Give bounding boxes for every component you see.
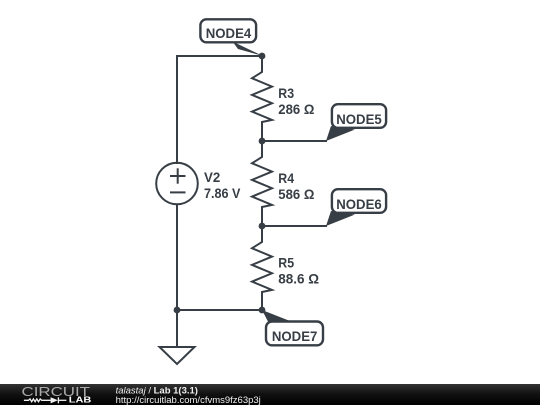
svg-text:R5: R5 <box>278 255 294 271</box>
svg-text:NODE6: NODE6 <box>336 197 382 212</box>
svg-text:http://circuitlab.com/cfvms9fz: http://circuitlab.com/cfvms9fz63p3j <box>116 395 261 405</box>
svg-text:586 Ω: 586 Ω <box>278 186 314 202</box>
svg-text:LAB: LAB <box>69 395 92 404</box>
svg-text:NODE4: NODE4 <box>206 26 252 41</box>
svg-text:NODE7: NODE7 <box>272 329 318 344</box>
svg-text:286 Ω: 286 Ω <box>278 101 314 117</box>
svg-text:R4: R4 <box>278 170 294 186</box>
svg-text:R3: R3 <box>278 85 294 101</box>
svg-text:7.86 V: 7.86 V <box>204 185 241 201</box>
svg-text:V2: V2 <box>204 169 221 185</box>
svg-text:NODE5: NODE5 <box>336 112 382 127</box>
svg-text:88.6 Ω: 88.6 Ω <box>278 270 319 286</box>
